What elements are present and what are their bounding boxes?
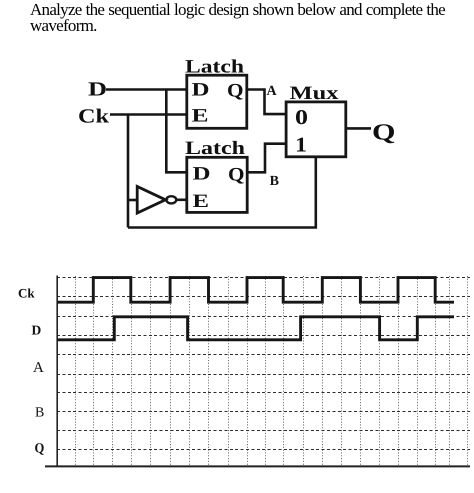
svg-text:D: D: [32, 323, 42, 338]
svg-text:A: A: [33, 360, 44, 376]
svg-text:B: B: [35, 405, 44, 420]
latch U2 box (bottom): [187, 157, 247, 212]
mux U4 box: [286, 102, 346, 157]
wire top latch Q to mux input 0: [247, 90, 286, 115]
waveform grid horizontal dashed lines: [57, 278, 470, 450]
waveform axis: [45, 276, 470, 467]
wire Ck input to top latch E: [110, 113, 187, 116]
wire mux output: [346, 127, 371, 130]
svg-text:Q: Q: [227, 81, 244, 102]
svg-text:1: 1: [295, 133, 307, 157]
svg-text:Q: Q: [228, 164, 245, 185]
svg-text:Q: Q: [35, 442, 45, 457]
svg-text:D: D: [192, 80, 210, 101]
wire inverter input stub: [128, 199, 137, 202]
wire feedback bottom run to mux select: [128, 157, 316, 228]
svg-text:E: E: [193, 191, 210, 212]
waveform trace D: [57, 317, 454, 340]
wire D input to top latch: [106, 88, 187, 91]
waveform trace Ck: [57, 278, 454, 303]
wire inverter output to bottom latch E: [176, 199, 187, 202]
wire D branch to bottom latch D: [166, 90, 187, 173]
svg-text:Latch: Latch: [185, 138, 246, 159]
svg-text:Q: Q: [372, 120, 396, 145]
svg-text:E: E: [192, 105, 209, 126]
svg-text:D: D: [88, 79, 107, 101]
svg-text:Ck: Ck: [18, 286, 35, 301]
svg-text:Ck: Ck: [78, 106, 110, 128]
svg-text:D: D: [193, 164, 211, 185]
wire bottom latch Q to mux input 1: [247, 144, 286, 173]
waveform grid vertical dashed lines: [76, 276, 468, 466]
svg-text:0: 0: [295, 105, 308, 129]
svg-text:A: A: [267, 84, 278, 99]
svg-text:Latch: Latch: [185, 57, 245, 78]
inverter U3 triangle: [137, 187, 165, 214]
latch U1 box (top): [187, 75, 247, 128]
wire Ck branch down to inverter and feedback: [127, 115, 130, 228]
svg-text:Mux: Mux: [290, 83, 340, 104]
svg-text:B: B: [270, 174, 279, 189]
inverter U3 bubble: [166, 196, 176, 203]
